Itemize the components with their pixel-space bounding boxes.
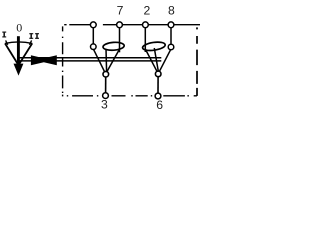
pole 1 spring link xyxy=(105,49,108,72)
terminal circle 7 xyxy=(117,22,123,28)
label I (position I) xyxy=(2,32,6,38)
enclosure bottom edge xyxy=(67,95,197,97)
enclosure top edge xyxy=(64,24,200,26)
pole 2 left blade xyxy=(145,49,157,73)
enclosure right edge xyxy=(196,27,198,96)
stem terminal 8 xyxy=(170,26,172,44)
terminal circle A xyxy=(90,22,96,28)
pole 1 bridge ellipse xyxy=(103,42,125,51)
svg-text:7: 7 xyxy=(117,4,124,18)
tick position II xyxy=(29,40,31,44)
linkage upper line xyxy=(19,57,162,59)
terminal circle 3 xyxy=(103,93,109,99)
lever shaft xyxy=(17,36,20,66)
svg-text:0: 0 xyxy=(16,20,22,34)
lever travel arc xyxy=(5,42,32,44)
svg-text:6: 6 xyxy=(156,98,163,112)
svg-text:2: 2 xyxy=(144,4,151,18)
detent bowtie xyxy=(31,55,57,65)
label II (position II) xyxy=(29,33,39,39)
pole 1 right blade xyxy=(107,49,120,73)
terminal circle 2 xyxy=(143,22,149,28)
terminal circle 6 xyxy=(155,93,161,99)
pole 2 spring link xyxy=(154,48,158,72)
pole 2 bridge ellipse xyxy=(142,41,166,52)
stem common 6 xyxy=(157,77,159,94)
fan right line xyxy=(19,43,32,64)
fan left line xyxy=(5,43,18,64)
stem common 3 xyxy=(105,77,107,93)
stem terminal 2 xyxy=(144,26,146,52)
pole 2 pivot xyxy=(155,71,161,77)
pole 2 fixed contact circle (open) xyxy=(168,44,174,50)
tick position I xyxy=(6,40,8,44)
stem terminal A (unlabeled) xyxy=(92,26,94,44)
pole 2 right blade xyxy=(159,49,171,72)
pole 1 pivot xyxy=(103,71,109,77)
lever arrowhead xyxy=(14,64,24,76)
terminal circle 8 xyxy=(168,22,174,28)
enclosure left edge xyxy=(62,26,64,96)
linkage lower line xyxy=(19,60,162,62)
stem terminal 7 xyxy=(119,26,121,52)
pole 1 fixed contact circle (open) xyxy=(91,44,97,50)
svg-text:8: 8 xyxy=(168,3,175,17)
svg-text:3: 3 xyxy=(101,98,108,112)
pole 1 left blade xyxy=(94,49,105,72)
